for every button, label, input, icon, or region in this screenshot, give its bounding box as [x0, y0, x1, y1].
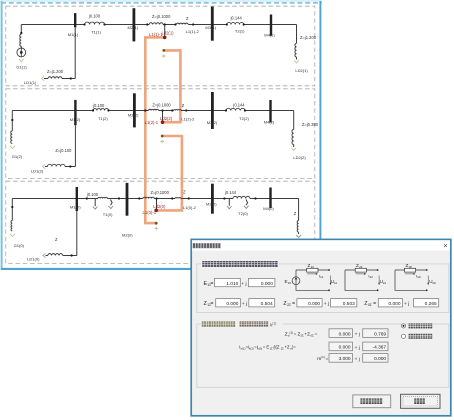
svg-text:M4(2): M4(2)	[264, 119, 275, 124]
dialog title text	[193, 243, 221, 248]
svg-text:+ j: + j	[355, 356, 360, 362]
fault drop wire to Ld2(0)	[156, 199, 158, 211]
svg-text:2Σ: 2Σ	[287, 303, 291, 307]
load LD2(0) branch wire	[298, 199, 300, 235]
load LD1(1) impedance coil	[48, 77, 62, 79]
input Z2 imag	[331, 299, 357, 307]
svg-text:M1(0): M1(0)	[70, 204, 81, 209]
generator G1(2) branch wire	[11, 111, 13, 132]
load LD1(2) branch wire	[45, 166, 75, 168]
svg-text:L1(2)-2: L1(2)-2	[181, 117, 195, 122]
svg-text:j0.100: j0.100	[88, 13, 101, 18]
input Z1 real	[216, 299, 241, 307]
line L1(0)-1 coil Z=j0.1000	[143, 197, 154, 198]
svg-text:k1: k1	[334, 281, 337, 285]
node fault drop top zero	[155, 197, 157, 199]
svg-text:0.000: 0.000	[339, 331, 351, 337]
button short-circuit calculate	[353, 395, 391, 408]
svg-text:T2(2): T2(2)	[239, 116, 249, 121]
line L1(2)-1 coil Z=j0.1000	[149, 109, 159, 110]
input E1 imag	[248, 278, 275, 286]
svg-text:T1(1): T1(1)	[91, 30, 101, 35]
svg-text:j0.100: j0.100	[86, 192, 99, 197]
radio1 label	[409, 323, 433, 328]
load LD2(1) branch wire	[296, 25, 298, 60]
line L1(1)-1 coil Z=j0.1000	[149, 23, 163, 25]
svg-text:M1(1): M1(1)	[68, 32, 79, 37]
transformer T2(0) ground branch 1	[227, 199, 232, 209]
svg-text:Z=j0.1000: Z=j0.1000	[151, 190, 170, 195]
svg-text:k2: k2	[383, 281, 386, 285]
svg-text:G1(1): G1(1)	[16, 64, 27, 69]
bus M1(2)	[74, 100, 76, 125]
button save (default)	[401, 394, 440, 408]
svg-text:(1): (1)	[272, 321, 276, 325]
transformer T2(0) coil	[233, 196, 250, 198]
transformer T1(0) coil	[98, 197, 108, 198]
svg-text:+Z: +Z	[304, 332, 310, 337]
ground arrow under G1(2)	[10, 146, 15, 149]
equivalent circuit seq 1	[285, 263, 338, 291]
button1 label	[360, 398, 382, 404]
node L1(0)-1 junction	[138, 197, 140, 199]
bus M1(1)	[74, 13, 76, 27]
group1 label text	[202, 261, 277, 267]
positive-sequence section dashed border	[6, 6, 315, 86]
svg-text:Z=j0.380: Z=j0.380	[302, 122, 319, 127]
svg-text:=: =	[211, 281, 214, 287]
svg-text:k1: k1	[320, 275, 323, 279]
node LD1(0) junction	[71, 254, 73, 256]
transformer T1(1) coil	[85, 22, 105, 24]
svg-text:1Σ: 1Σ	[311, 265, 315, 269]
svg-text:M1(2): M1(2)	[70, 117, 81, 122]
svg-text:(1): (1)	[321, 355, 325, 359]
svg-text:j0.100: j0.100	[92, 103, 105, 108]
input Z2 real	[297, 299, 322, 307]
svg-text:k(0): k(0)	[257, 346, 262, 350]
line L1(2)-2 coil	[174, 109, 181, 112]
svg-text:LD1(0): LD1(0)	[27, 256, 40, 261]
input Z0 real	[378, 299, 402, 307]
svg-text:1Σ: 1Σ	[288, 281, 292, 285]
svg-text:Z=j1.200: Z=j1.200	[300, 35, 317, 40]
bus M4(1)	[270, 15, 272, 36]
ground arrow under G1(0)	[10, 234, 15, 237]
svg-text:-4.367: -4.367	[372, 345, 386, 351]
svg-text:=: =	[211, 301, 214, 307]
fault drop wire to Ld2(2)	[162, 111, 164, 123]
generator G1(2) reactance coil	[11, 131, 13, 143]
svg-text:LD1(2): LD1(2)	[31, 169, 44, 174]
ground mark N1	[162, 54, 166, 58]
svg-text:0Σ: 0Σ	[310, 333, 314, 337]
transformer T2(2) coil	[226, 108, 245, 110]
generator G1(0) branch wire	[11, 199, 13, 221]
svg-text:/j(Z: /j(Z	[273, 345, 279, 350]
svg-text:+ j: + j	[242, 301, 247, 307]
load LD1(2) impedance coil	[48, 164, 66, 166]
svg-text:1.010: 1.010	[226, 281, 238, 287]
svg-text:=: =	[326, 356, 329, 361]
wire orange link N2 to F0	[156, 136, 182, 210]
svg-text:L1(1)-2: L1(1)-2	[186, 29, 200, 34]
svg-text:M2(2): M2(2)	[128, 112, 139, 117]
wire main bus run negative sequence	[12, 110, 293, 112]
bus M3(1)	[211, 7, 214, 41]
node L1(2)-1 junction	[144, 109, 146, 111]
result row Ik	[239, 342, 388, 351]
load LD2(2) branch wire	[293, 111, 295, 148]
node L1(2)-2 dots	[171, 109, 173, 111]
svg-text:M3(2): M3(2)	[207, 120, 218, 125]
transformer T1(0) dots	[86, 197, 88, 199]
group box: current fault type	[197, 324, 449, 387]
svg-text:+ j: + j	[324, 301, 329, 307]
radio button show per-unit values	[401, 334, 405, 338]
zero-sequence section dashed border	[6, 181, 315, 263]
generator G1(1) reactance coil	[20, 34, 22, 46]
svg-text:k(1): k(1)	[241, 346, 246, 350]
svg-text:k(2): k(2)	[249, 346, 254, 350]
load LD1(0) arrow	[43, 253, 46, 257]
generator G1(1) branch wire	[20, 25, 22, 35]
svg-text:M4(1): M4(1)	[264, 32, 275, 37]
svg-text:Z=j0.100: Z=j0.100	[55, 148, 72, 153]
transformer T2(0) dots	[223, 197, 225, 199]
fault point Ld2(2)	[161, 120, 165, 124]
input E1 real	[215, 278, 241, 286]
radio button show named values (selected)	[401, 324, 405, 328]
svg-text:L1(2)-1: L1(2)-1	[145, 120, 159, 125]
svg-text:G1(2): G1(2)	[12, 154, 23, 159]
svg-text:T1(0): T1(0)	[103, 212, 113, 217]
svg-text:k0: k0	[433, 281, 436, 285]
load LD1(1) branch wire	[44, 78, 75, 80]
transformer T2(2) dots	[225, 109, 227, 111]
ground mark N0	[154, 227, 158, 231]
wire main bus run positive sequence	[21, 24, 296, 26]
bus M3(0)	[211, 184, 214, 214]
svg-text:+ j: + j	[241, 281, 246, 287]
dialog window	[191, 239, 451, 415]
svg-text:=: =	[292, 301, 295, 307]
node generator G1(1) junction	[20, 32, 22, 34]
svg-text:×: ×	[443, 241, 447, 250]
load LD2(1) coil	[295, 43, 297, 57]
fault drop wire to Ld2(1)	[164, 25, 166, 38]
input Z0 imag	[414, 299, 439, 307]
node LD1(2) junction	[69, 165, 71, 167]
node N2 fault neutral	[161, 135, 164, 138]
bus M1(0)	[76, 187, 78, 211]
node L1(0)-2 dots	[171, 197, 173, 199]
result row Zd	[285, 329, 388, 338]
svg-text:G1(0): G1(0)	[14, 243, 25, 248]
node N0 fault neutral	[155, 222, 158, 225]
svg-text:0.000: 0.000	[308, 301, 320, 307]
svg-text:L1(0)-2: L1(0)-2	[183, 205, 197, 210]
svg-text:T2(0): T2(0)	[238, 211, 248, 216]
svg-text:0.504: 0.504	[261, 301, 273, 307]
bus M2(1)	[133, 8, 136, 41]
load LD2(2) coil	[292, 130, 294, 145]
ground mark N2	[160, 140, 164, 144]
equivalent circuit seq 0	[395, 263, 436, 291]
group box: three-sequence network equivalents	[197, 264, 449, 313]
transformer T1(2) dots	[92, 109, 94, 111]
svg-text:Ld2(0): Ld2(0)	[153, 204, 166, 209]
svg-text:j0.144: j0.144	[230, 16, 243, 21]
fault point Ld2(0)	[154, 209, 158, 213]
svg-text:T1(2): T1(2)	[98, 116, 108, 121]
svg-text:M4(0): M4(0)	[263, 206, 274, 211]
svg-text:+ j: + j	[404, 301, 409, 307]
svg-text:Ld2(2): Ld2(2)	[160, 116, 173, 121]
transformer T1(2) coil	[93, 109, 109, 111]
load LD1(1) arrow	[42, 76, 45, 80]
load LD1(2) arrow	[43, 164, 46, 168]
diagram outer teal frame	[1, 1, 322, 270]
node fault drop top	[164, 23, 166, 25]
wire orange link N1 to F2	[163, 50, 181, 122]
bus M2(2)	[133, 93, 136, 127]
node N1 fault neutral	[162, 49, 165, 52]
line L1(0)-2 coil	[175, 197, 181, 200]
node L1(1)-2 dots	[174, 23, 176, 25]
node G1(2) junction	[11, 119, 13, 121]
load LD2(0) arrow	[296, 235, 301, 238]
load LD2(2) arrow	[291, 148, 296, 151]
bus M4(2)	[269, 100, 271, 123]
svg-text:0Σ: 0Σ	[409, 265, 413, 269]
bus M2(0)	[126, 183, 129, 216]
svg-text:0.000: 0.000	[261, 281, 273, 287]
svg-text:LD2(2): LD2(2)	[293, 155, 306, 160]
load LD1(0) impedance coil	[48, 254, 63, 256]
radio2 label	[409, 334, 433, 339]
svg-text:=: =	[315, 332, 318, 337]
svg-text:3.000: 3.000	[339, 356, 351, 362]
transformer T1(0) ground branch 2	[109, 200, 114, 209]
svg-text:Z=j0.1000: Z=j0.1000	[152, 14, 171, 19]
svg-text:j0.144: j0.144	[232, 103, 245, 108]
svg-text:0.000: 0.000	[388, 301, 400, 307]
load LD1(0) branch wire	[46, 255, 77, 257]
svg-text:M2(0): M2(0)	[122, 232, 133, 237]
transformer T2(1) coil	[227, 22, 244, 24]
svg-text:)=: )=	[292, 345, 296, 350]
svg-text:Z=j0.1000: Z=j0.1000	[152, 102, 171, 107]
svg-text:0.265: 0.265	[425, 301, 437, 307]
svg-text:LD1(1): LD1(1)	[24, 80, 37, 85]
wire orange left rail F1 to N0	[145, 37, 164, 223]
svg-text:M3(1): M3(1)	[205, 25, 216, 30]
svg-text:0.000: 0.000	[339, 345, 351, 351]
svg-text:0.000: 0.000	[226, 301, 238, 307]
group2 header part2 fault name	[240, 321, 269, 326]
svg-text:k2: k2	[370, 275, 373, 279]
transformer T1(1) junction dots	[83, 23, 85, 25]
svg-text:j0.144: j0.144	[224, 190, 237, 195]
input Z1 imag	[249, 299, 275, 307]
svg-text:+ j: + j	[355, 332, 360, 338]
svg-text:T2(1): T2(1)	[235, 29, 245, 34]
load LD2(1) arrow	[294, 60, 299, 63]
node LD1(1) junction	[70, 77, 72, 79]
transformer T2(1) dots	[226, 23, 228, 25]
svg-text:0.000: 0.000	[374, 356, 386, 362]
svg-text:+ j: + j	[355, 345, 360, 351]
button2 label	[414, 398, 425, 404]
svg-text:Ld2(1): Ld2(1)	[161, 30, 174, 35]
svg-text:0Σ: 0Σ	[368, 303, 372, 307]
node L1(1)-1 left junction	[146, 23, 148, 25]
load LD2(0) coil	[297, 221, 298, 233]
result row m	[317, 354, 388, 363]
ground arrow under G1(1)	[19, 59, 24, 62]
generator G1(1) symbol	[17, 46, 26, 57]
line L1(1)-2 coil	[176, 23, 188, 24]
svg-text:M2(1): M2(1)	[128, 25, 139, 30]
svg-text:Z=j1.200: Z=j1.200	[47, 69, 64, 74]
svg-text:2Σ: 2Σ	[359, 265, 363, 269]
equivalent circuit seq 2	[345, 263, 386, 291]
node G1(0) junction	[11, 206, 13, 208]
transformer T2(0) ground branch 2	[244, 200, 249, 209]
generator G1(0) reactance coil	[11, 221, 12, 231]
svg-text:0.769: 0.769	[374, 331, 386, 337]
node fault drop top negative	[161, 109, 163, 111]
svg-text:M3(0): M3(0)	[206, 202, 217, 207]
bus M4(0)	[269, 188, 271, 209]
svg-text:0.503: 0.503	[343, 301, 355, 307]
group2 header part1 fault type	[202, 321, 235, 326]
fault point Ld2(1)	[163, 36, 167, 40]
svg-text:=: =	[373, 301, 376, 307]
bus M3(2)	[211, 92, 214, 129]
negative-sequence section dashed border	[6, 89, 315, 179]
transformer T1(0) ground branch 1	[93, 199, 98, 210]
svg-text:k0: k0	[418, 275, 421, 279]
svg-text:LD2(1): LD2(1)	[295, 68, 308, 73]
wire main bus run zero sequence	[12, 198, 298, 200]
